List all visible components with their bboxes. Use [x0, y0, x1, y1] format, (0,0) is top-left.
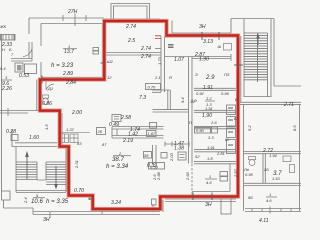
svg-text:58: 58: [144, 153, 149, 158]
svg-text:2Б: 2Б: [263, 167, 269, 172]
staircase top-right box: [244, 19, 271, 97]
texts room stack: [189, 72, 238, 161]
balcony box top: [111, 4, 150, 21]
dashed boundary: [191, 164, 193, 196]
small red marks near top step: [155, 36, 161, 39]
svg-text:Э: Э: [195, 72, 198, 77]
svg-text:2.00: 2.00: [71, 110, 82, 116]
wall bottom-left outer step: [2, 191, 11, 200]
svg-text:Ш: Ш: [218, 44, 222, 49]
svg-text:h = 3.35: h = 3.35: [46, 198, 69, 205]
svg-text:1.94: 1.94: [269, 153, 278, 158]
door arc room 13.7: [23, 48, 32, 59]
room stack wall y163: [194, 162, 238, 164]
svg-text:0.86: 0.86: [42, 101, 52, 107]
wall kitchen top: [0, 108, 40, 116]
wall bottom outer lower: [33, 199, 236, 212]
staircase bottom-left rungs left flight: [16, 162, 37, 180]
svg-text:1.90: 1.90: [199, 57, 209, 63]
wall corridor top-left: [29, 18, 104, 34]
svg-text:1: 1: [269, 192, 271, 197]
svg-text:2.71: 2.71: [283, 102, 294, 108]
svg-text:38.7: 38.7: [112, 156, 124, 163]
texts bottom: [23, 160, 212, 223]
svg-text:2.19: 2.19: [122, 138, 133, 144]
dimension ticks 27H: [63, 14, 86, 27]
svg-text:2.98: 2.98: [156, 171, 161, 181]
svg-text:0.49: 0.49: [109, 122, 119, 128]
wall stair right outer: [274, 19, 301, 87]
svg-text:2.31: 2.31: [74, 160, 79, 169]
door arc D1: [46, 81, 54, 90]
wall above stair: [12, 130, 57, 147]
svg-text:1.91: 1.91: [203, 85, 213, 91]
toilet icon left: [43, 95, 49, 105]
big right room walls: [244, 105, 302, 211]
closet top line: [165, 56, 193, 58]
svg-text:1.90: 1.90: [202, 113, 212, 119]
svg-text:13.7: 13.7: [64, 49, 74, 55]
window top-left hatched: [1, 35, 16, 41]
staircase top-right divider: [257, 33, 259, 82]
svg-text:3Н: 3Н: [205, 202, 212, 208]
wall stair top: [231, 18, 274, 20]
svg-text:1.5: 1.5: [44, 124, 49, 130]
texts left: [0, 24, 82, 146]
tick: [269, 207, 271, 214]
corridor bottom-right wall: [240, 102, 301, 104]
staircase bottom-left up arrow: [25, 151, 29, 179]
svg-text:1.91: 1.91: [207, 145, 215, 150]
svg-text:2.74: 2.74: [125, 24, 136, 30]
svg-text:5Б: 5Б: [248, 195, 253, 200]
svg-text:2.57: 2.57: [233, 168, 238, 178]
svg-text:3.13: 3.13: [203, 39, 213, 45]
room stack wall y127: [194, 127, 238, 129]
svg-text:Д1: Д1: [47, 86, 53, 91]
texts bottom right: [243, 102, 297, 224]
svg-text:8.5: 8.5: [292, 125, 297, 131]
svg-text:3Н: 3Н: [199, 24, 206, 30]
wall wc cluster: [152, 90, 189, 112]
room 4.6 vent boxes: [220, 172, 228, 177]
svg-text:0.92: 0.92: [196, 91, 205, 96]
staircase top-right rungs: [244, 33, 268, 80]
svg-text:1.8: 1.8: [207, 156, 213, 161]
box bottom-left of right rooms: [221, 196, 231, 214]
svg-text:9.4: 9.4: [180, 97, 185, 103]
svg-text:1.38: 1.38: [174, 146, 184, 152]
svg-text:0.90: 0.90: [196, 128, 205, 133]
wall corridor inner right: [240, 36, 242, 102]
svg-text:1.91: 1.91: [205, 106, 213, 111]
svg-text:0.95: 0.95: [245, 172, 254, 177]
staircase bottom-left box: [16, 147, 66, 193]
svg-text:д3: д3: [77, 141, 82, 146]
svg-text:ЖК: ЖК: [0, 24, 7, 29]
svg-text:7.3: 7.3: [139, 95, 146, 101]
svg-text:3.24: 3.24: [111, 200, 121, 206]
svg-text:28: 28: [97, 129, 103, 134]
svg-text:2.5: 2.5: [127, 38, 135, 44]
svg-text:1.87: 1.87: [148, 131, 157, 136]
svg-text:1.73: 1.73: [157, 56, 162, 65]
small boxes lower hall: [144, 152, 152, 159]
texts top: [67, 9, 222, 103]
svg-text:Ш2: Ш2: [107, 59, 114, 64]
tick bottom-left: [50, 209, 102, 218]
small teal mark: [89, 197, 94, 201]
wall room 13.7 bottom: [41, 76, 103, 78]
svg-text:3.3: 3.3: [208, 135, 214, 140]
svg-text:2.9: 2.9: [205, 74, 215, 81]
hatched window boxes entry: [61, 132, 91, 142]
svg-text:д7: д7: [102, 142, 107, 147]
wall hall top: [106, 53, 161, 56]
staircase bottom-left down arrow: [54, 166, 58, 190]
wall room 13.7 left lower: [41, 24, 102, 78]
svg-text:27Н: 27Н: [67, 9, 78, 15]
svg-text:2.89: 2.89: [62, 71, 73, 77]
sink icon right room: [283, 156, 295, 173]
wall room 13.7 top: [41, 23, 103, 25]
svg-text:2.74: 2.74: [140, 54, 151, 60]
svg-text:4.6: 4.6: [206, 180, 212, 185]
svg-text:0.59: 0.59: [150, 165, 159, 170]
svg-text:2.84: 2.84: [65, 80, 76, 86]
svg-text:Я: Я: [168, 75, 172, 80]
svg-text:3.2: 3.2: [206, 96, 212, 101]
svg-text:0.70: 0.70: [74, 188, 84, 194]
small marks in boxes: [228, 108, 233, 145]
rooms bottom wall: [244, 183, 301, 185]
svg-text:Ш: Ш: [225, 137, 229, 142]
room 2.9 top wall: [192, 54, 231, 61]
staircase top-right up arrow: [256, 34, 260, 46]
svg-text:9.4: 9.4: [0, 66, 6, 71]
room stack left wall: [189, 57, 193, 164]
svg-text:2.1: 2.1: [154, 75, 161, 80]
staircase bottom-left rungs right flight: [46, 162, 66, 185]
svg-text:1: 1: [209, 174, 211, 179]
svg-text:1.22: 1.22: [66, 127, 75, 132]
svg-text:1.07: 1.07: [174, 57, 184, 63]
small rooms divider: [263, 154, 265, 183]
wall room 9.6 top: [11, 42, 32, 61]
svg-text:h = 3.23: h = 3.23: [51, 62, 74, 69]
texts room 13.7: [51, 44, 77, 86]
svg-text:4.11: 4.11: [259, 218, 269, 224]
svg-text:5.2: 5.2: [247, 125, 252, 131]
boxed label 0.90: [195, 128, 211, 134]
corridor right wall boxes column: [227, 105, 236, 115]
room stack wall y88: [194, 88, 238, 90]
svg-text:2.6: 2.6: [210, 120, 217, 125]
red unit boundary: [40, 21, 238, 209]
svg-text:52: 52: [195, 154, 200, 159]
wall step top gray: [104, 19, 231, 34]
svg-text:0.99: 0.99: [221, 91, 230, 96]
room stack wall y150: [194, 150, 238, 152]
svg-text:2.74: 2.74: [140, 46, 151, 52]
svg-text:h = 3.34: h = 3.34: [106, 163, 129, 170]
svg-text:Б: Б: [235, 97, 238, 102]
wall partition living room band: [112, 127, 164, 139]
svg-text:ПЗ: ПЗ: [224, 72, 230, 77]
svg-text:12: 12: [107, 75, 112, 80]
room stack wall y110: [194, 110, 238, 112]
vent icon room 13.7: [93, 48, 99, 51]
svg-text:Б: Б: [234, 116, 237, 121]
door dimension line: [165, 142, 189, 147]
wall outer left: [1, 34, 3, 191]
shaft boxes left: [15, 63, 23, 72]
bottom-right outer wall window: [245, 209, 301, 212]
room 4.6 walls: [192, 164, 230, 192]
staircase bottom-left dividers: [37, 162, 46, 180]
svg-text:П: П: [189, 120, 192, 125]
svg-text:2.60: 2.60: [185, 171, 190, 181]
svg-text:3Н: 3Н: [43, 217, 50, 223]
svg-text:0.70: 0.70: [148, 85, 157, 90]
svg-text:2.26: 2.26: [1, 86, 12, 92]
right rooms right edge: [299, 105, 301, 211]
svg-text:2.03: 2.03: [169, 152, 174, 162]
svg-text:1.42: 1.42: [128, 132, 138, 138]
sink icon top-right unit: [224, 44, 232, 51]
svg-text:1.53: 1.53: [272, 176, 281, 181]
svg-text:4.6: 4.6: [266, 198, 272, 203]
gray companion left wall: [37, 80, 62, 147]
toilet icon right room: [249, 157, 256, 166]
svg-text:0.28: 0.28: [6, 129, 16, 135]
wall lower hall vertical: [153, 145, 157, 212]
ticks over red: [42, 32, 243, 200]
small dark marks near step: [168, 45, 174, 47]
svg-text:2.4: 2.4: [23, 197, 28, 204]
wall closet vertical: [161, 36, 165, 92]
svg-text:10.6: 10.6: [31, 198, 43, 205]
svg-text:1.60: 1.60: [29, 135, 39, 141]
svg-text:Н: Н: [2, 47, 5, 52]
svg-text:0.53: 0.53: [19, 73, 29, 79]
texts hall middle: [97, 75, 239, 185]
small box kitchen: [11, 135, 18, 141]
svg-text:2.58: 2.58: [120, 115, 131, 121]
svg-text:Э2: Э2: [190, 99, 196, 104]
boxed label 1.87: [147, 131, 157, 137]
svg-text:2.81: 2.81: [216, 151, 225, 156]
